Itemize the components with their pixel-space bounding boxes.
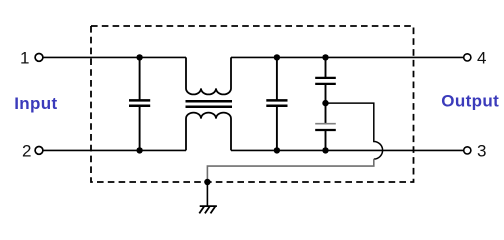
junction dot Y-caps midpoint: [322, 100, 328, 106]
svg-text:3: 3: [477, 141, 486, 160]
terminal 3: [464, 147, 471, 154]
svg-text:4: 4: [477, 48, 486, 67]
junction dot ground node on enclosure: [204, 179, 210, 185]
wire: bottom rail left (terminal 2 to choke): [44, 149, 187, 151]
capacitor C4 (lower Y-cap): [315, 103, 336, 150]
wire: Y-cap midpoint to hop (over bottom rail): [326, 103, 383, 159]
capacitor C3 (upper Y-cap): [315, 57, 336, 103]
wire: ground stem: [206, 182, 208, 206]
svg-text:Input: Input: [14, 94, 57, 113]
junction dot C2 bottom: [274, 147, 280, 153]
junction dot C1 bottom: [136, 147, 142, 153]
filter enclosure (dashed box): [91, 26, 414, 182]
junction dot C2 top: [274, 54, 280, 60]
svg-text:1: 1: [20, 48, 29, 67]
terminal 4: [464, 54, 471, 61]
terminal 1: [35, 54, 43, 62]
common-mode choke L1 top winding: [186, 57, 231, 94]
wire: ground return (hop to ground node): [207, 159, 373, 182]
wire: bottom rail right (choke to terminal 3): [231, 149, 463, 151]
capacitor C2 (output X-cap): [266, 57, 287, 150]
svg-text:2: 2: [22, 141, 31, 160]
choke L1 core: [186, 101, 233, 107]
junction dot C1 top: [136, 54, 142, 60]
common-mode choke L1 bottom winding: [186, 113, 231, 151]
capacitor C1 (input X-cap): [129, 57, 150, 150]
terminal 2: [35, 147, 43, 155]
junction dot Y-caps top: [322, 54, 328, 60]
svg-text:Output: Output: [441, 91, 499, 110]
junction dot Y-caps bottom: [322, 147, 328, 153]
wire: top rail right (choke to terminal 4): [231, 56, 463, 58]
wire: top rail left (terminal 1 to choke): [44, 56, 187, 58]
ground (chassis): [199, 206, 217, 213]
